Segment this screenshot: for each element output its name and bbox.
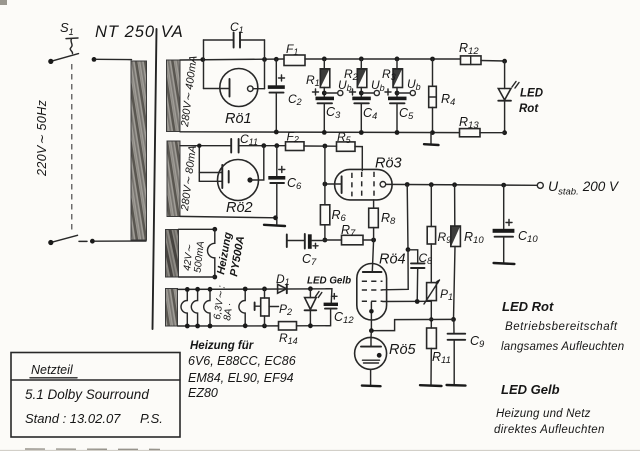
node junction Ustab/R9 [429, 182, 434, 187]
svg-text:Rö1: Rö1 [225, 111, 252, 127]
svg-text:Rö4: Rö4 [379, 252, 406, 268]
resistor R2 [360, 59, 362, 69]
tube Rö4 envelope [357, 264, 387, 321]
wire R6 bottom to C7/R7 node [324, 225, 326, 240]
wire R8 bottom [373, 228, 375, 240]
tube Rö5 electrode dot [377, 353, 382, 358]
svg-text:LED Gelb: LED Gelb [307, 276, 351, 287]
tube Rö2 cathode branch [199, 146, 221, 182]
capacitor C7 wire right [312, 240, 325, 242]
node junction P2 top [262, 287, 267, 292]
potentiometer P2 wiper [254, 303, 256, 311]
wire Ustab rail [386, 183, 538, 186]
heater tap 3 with bump [204, 289, 210, 326]
capacitor C8 branch wire [408, 250, 418, 263]
tube Rö4 anode plate bar [363, 271, 382, 273]
wire top rail F1 to R12 [305, 58, 461, 60]
svg-text:LED Gelb: LED Gelb [501, 382, 560, 397]
svg-text:P.S.: P.S. [140, 411, 163, 426]
capacitor C11 plates [231, 139, 238, 153]
node junction C3 bottom [322, 130, 327, 135]
capacitor C10 wire bottom [503, 237, 505, 263]
transformer secondary bar winding 1 [167, 60, 181, 132]
wire R5 to Rö3 screen grid [355, 147, 362, 171]
node junction R6 riser top [323, 144, 328, 149]
node junction R3/C5/Ub [395, 91, 400, 96]
ground below C6 [264, 225, 285, 226]
capacitor C2 plus sign [279, 75, 285, 81]
capacitor C5 plates [388, 97, 407, 101]
capacitor C12 wire bottom corner [326, 309, 331, 326]
svg-text:6V6, E88CC, EC86: 6V6, E88CC, EC86 [188, 354, 296, 368]
terminal Ub 2 [374, 90, 379, 95]
node junction Rö4/Rö5 [369, 328, 374, 333]
resistor R14 [279, 322, 297, 330]
wire R11 to ground [430, 349, 432, 385]
node junction R4 top [430, 57, 435, 62]
wire LED anode [504, 61, 506, 88]
tube Rö2 cathode bars [221, 165, 223, 188]
ground below C10 [494, 263, 515, 264]
node junction C7/R7/R6 [323, 238, 328, 243]
tube Rö1 cathode wire [204, 88, 230, 90]
resistor R1 [323, 59, 325, 69]
svg-text:Netzteil: Netzteil [31, 363, 74, 377]
tube Rö3 cathode bar [341, 176, 343, 193]
capacitor C9 plates [448, 334, 466, 340]
tube Rö2 anode wire [250, 146, 264, 180]
terminal Ub 3 [410, 90, 415, 95]
capacitor C1 loop wires [204, 40, 265, 89]
capacitor C5 plus [385, 89, 391, 95]
LED Gelb symbol [309, 289, 311, 298]
wire R12 to LED [481, 60, 505, 63]
potentiometer P1 [427, 283, 437, 301]
heater tap 2 with bump [191, 289, 197, 326]
capacitor C10 plates [493, 229, 515, 233]
scan artifact bottom edge [0, 449, 640, 451]
capacitor C7 plus [313, 243, 318, 248]
diode D1 [278, 284, 287, 293]
tube Rö5 anode line [361, 346, 381, 348]
node junction row1/C1 right [262, 57, 267, 62]
capacitor C3 wire bottom [323, 103, 325, 132]
tube Rö3 anode circle [380, 182, 386, 188]
transformer primary winding bar [131, 61, 147, 240]
wire switch to primary top [96, 58, 132, 60]
node dot winding3 top [212, 227, 217, 232]
transformer secondary bar winding 4 [166, 289, 178, 327]
wire to Rö5 [370, 331, 372, 338]
node junction Ustab/Rö4-grid riser [405, 182, 410, 187]
svg-text:langsames Aufleuchten: langsames Aufleuchten [501, 341, 624, 353]
node junction P1/R11 crossing [429, 317, 433, 321]
node junction LED top [502, 59, 507, 64]
switch lower fixed contact stub [79, 240, 87, 242]
resistor R4 [432, 59, 434, 86]
wire row2 bottom rail [180, 216, 277, 217]
node junction C6 top [274, 143, 279, 148]
svg-text:EZ80: EZ80 [188, 386, 218, 400]
resistor R11 [427, 328, 437, 349]
tube Rö4 cathode wire down [370, 302, 372, 331]
wire Rö4 cathode to C8 bus [383, 300, 432, 302]
resistor R6 [320, 205, 329, 225]
node junction R2 top [359, 57, 364, 62]
svg-text:Rot: Rot [519, 103, 539, 115]
heater rail bottom right [297, 325, 331, 327]
node junction Ustab/R10 [452, 182, 457, 187]
svg-text:NT 250 VA: NT 250 VA [95, 23, 184, 41]
tube Rö2 anode dot [247, 177, 252, 182]
ground below C9 [447, 384, 466, 387]
wire R6 riser [324, 146, 326, 205]
svg-text:LED Rot: LED Rot [502, 299, 554, 314]
wire R7 to R8 node [363, 239, 374, 241]
svg-text:Rö3: Rö3 [375, 156, 402, 172]
svg-text:EM84, EL90, EF94: EM84, EL90, EF94 [188, 371, 294, 385]
wire Ub tap 3 [397, 92, 410, 94]
capacitor C12 plus [332, 294, 338, 299]
node junction C5 bottom [395, 130, 400, 135]
wire Ub tap 1 [324, 92, 337, 94]
wire R13 to LED bottom [480, 132, 505, 134]
node junction row1/C1 left [200, 57, 205, 62]
capacitor C9 wire top [453, 319, 455, 333]
wire R10 riser [454, 185, 456, 226]
switch lower left contact dot [48, 240, 53, 245]
capacitor C4 plates [352, 97, 371, 101]
transformer core line [153, 29, 157, 329]
tube Rö3 envelope [335, 169, 393, 200]
capacitor C8 plates [411, 263, 425, 268]
switch link dashed line [71, 64, 73, 232]
capacitor C4 wire bottom [360, 103, 362, 132]
wire node to R7 [325, 239, 342, 241]
potentiometer P2 [264, 289, 266, 298]
capacitor C4 plus [350, 89, 356, 95]
tube Rö3 grid dashes [352, 172, 374, 198]
svg-text:220V∼ 50Hz: 220V∼ 50Hz [35, 99, 49, 177]
wire row2 top rail left [180, 145, 231, 147]
tube Rö3 cathode wire [325, 183, 341, 185]
wire Rö3 grid2 to R8 [373, 200, 375, 208]
resistor R8 [369, 208, 379, 227]
tube Rö2 envelope [218, 160, 259, 201]
terminal Ustab [537, 182, 543, 188]
node junction Rö2 branch [197, 144, 201, 148]
heater rail top [178, 288, 332, 291]
heater tap 1 with bump [181, 289, 187, 326]
wire lower switch to primary bottom [95, 240, 147, 242]
svg-text:5.1 Dolby Sourround: 5.1 Dolby Sourround [25, 387, 149, 402]
winding3 loop right side with coil bump [208, 229, 215, 277]
heater tap 4 with bump [239, 289, 245, 326]
switch S1 lower pole blade [51, 235, 78, 242]
node junction P2 bottom [262, 324, 267, 329]
node junction R7/R8/Rö4 [371, 238, 376, 243]
wire R9 to P1 [430, 244, 432, 283]
capacitor C6 wire bottom [276, 183, 278, 224]
capacitor C10 plus [506, 220, 512, 226]
wire R9 riser [430, 185, 432, 227]
ground below Rö5 [362, 384, 381, 387]
capacitor C2 plates [268, 85, 285, 89]
node junction R10/C9 [451, 317, 456, 322]
node dot winding3 bottom [212, 275, 217, 280]
capacitor C3 plus [313, 89, 319, 95]
tube Rö4 anode wire top [372, 240, 373, 272]
node junction row2 bottom / C6 [273, 215, 278, 220]
switch S1 right contact dot [92, 57, 97, 62]
capacitor C7 terminal bar [286, 235, 288, 248]
switch S1 left contact dot [48, 59, 53, 64]
winding3 loop top wire [179, 228, 215, 230]
wire R10 to node [454, 247, 456, 320]
capacitor C6 wire top [276, 146, 278, 176]
node junction Rö2 anode riser [261, 143, 266, 148]
svg-text:direktes Aufleuchten: direktes Aufleuchten [494, 424, 605, 436]
fuse F1 [284, 55, 305, 66]
wire LED cathode [504, 101, 506, 133]
wire to Rö4 grid [383, 250, 409, 290]
node junction LED bottom [502, 130, 507, 135]
capacitor C12 plates [324, 303, 338, 306]
resistor R7 [342, 235, 364, 245]
wire row1 bottom rail [180, 131, 460, 134]
heater rail bottom left [178, 325, 279, 327]
node junction row1/C2 [274, 57, 279, 62]
capacitor C3 plates [316, 97, 335, 101]
wire row2 top rail right [239, 145, 286, 147]
node junction R3 top [395, 57, 400, 62]
wire P1 to R11 [430, 301, 432, 328]
capacitor C9 wire bottom [453, 340, 455, 385]
node junction LED gelb bottom [308, 323, 313, 328]
resistor R5 [337, 142, 356, 151]
svg-text:Stand : 13.02.07: Stand : 13.02.07 [25, 411, 121, 426]
tube Rö5 anode lead [370, 337, 372, 346]
transformer secondary bar winding 2 [167, 141, 180, 217]
node junction C4 bottom [359, 130, 364, 135]
svg-text:LED: LED [520, 88, 543, 100]
title block box [11, 353, 180, 438]
switch S1 upper pole [51, 38, 79, 61]
resistor R12 [461, 56, 482, 65]
node junction C8 branch [406, 247, 411, 252]
node junction R4 bottom [430, 130, 435, 135]
switch lower right contact dot [90, 239, 95, 244]
wire Rö5 to ground [370, 369, 372, 385]
tube Rö1 anode circle [248, 86, 254, 92]
svg-text:Rö5: Rö5 [389, 342, 417, 358]
node dot Rö4 cathode [369, 309, 374, 314]
resistor R9 [427, 227, 435, 245]
node junction R6/cathode [323, 182, 328, 187]
node junction R2/C4/Ub [359, 91, 364, 96]
svg-text:Heizung für: Heizung für [190, 340, 254, 352]
resistor R13 [460, 129, 481, 137]
capacitor C7 plates [304, 234, 306, 249]
node junction C8 bottom [415, 299, 420, 304]
tube Rö4 grid dashes [362, 281, 383, 301]
wire row1 top rail [180, 59, 284, 60]
fuse F2 [286, 142, 305, 151]
ground below R11 [420, 384, 442, 387]
capacitor C2 wire top [275, 59, 277, 85]
transformer secondary bar winding 3 [166, 230, 179, 278]
capacitor C2 wire bottom [275, 93, 277, 132]
resistor R10 [451, 226, 461, 247]
capacitor C7 wire left [288, 240, 305, 242]
capacitor C10 wire top [503, 185, 505, 228]
wire riser to C8/grid [406, 185, 409, 250]
wire corner to Rö4 cathode node [372, 320, 395, 331]
node junction R1/C3/Ub [322, 91, 327, 96]
tube Rö1 cathode bar [229, 79, 231, 97]
capacitor C8 wire bottom [416, 268, 419, 302]
node junction C2 bottom [274, 130, 279, 135]
tube Rö5 envelope [355, 337, 387, 369]
wire cathode bus horizontal [395, 318, 454, 320]
tube Rö5 cathode lines [363, 359, 380, 361]
svg-text:Heizung und Netz: Heizung und Netz [496, 408, 591, 420]
capacitor C5 wire bottom [396, 103, 398, 132]
capacitor C6 plus [279, 167, 285, 173]
LED Rot symbol [498, 89, 511, 101]
tube Rö1 envelope [220, 69, 258, 107]
capacitor C12 wire top corner [326, 289, 332, 303]
capacitor C6 plates [268, 176, 285, 180]
node junction Ustab/C10 [501, 183, 506, 188]
resistor R3 [396, 59, 398, 69]
node junction R1 top [322, 57, 327, 62]
wire F2 to R5 [304, 145, 337, 147]
svg-text:Rö2: Rö2 [226, 200, 253, 216]
svg-text:Betriebsbereitschaft: Betriebsbereitschaft [505, 321, 618, 333]
winding3 loop bottom wire [179, 276, 215, 278]
capacitor C1 plates [234, 33, 240, 48]
ground stub below rail [430, 133, 432, 144]
wire Ub tap 2 [361, 92, 374, 94]
terminal Ub 1 [338, 90, 343, 95]
node junction LED gelb top [308, 286, 313, 291]
tube Rö1 anode wire [253, 88, 265, 90]
